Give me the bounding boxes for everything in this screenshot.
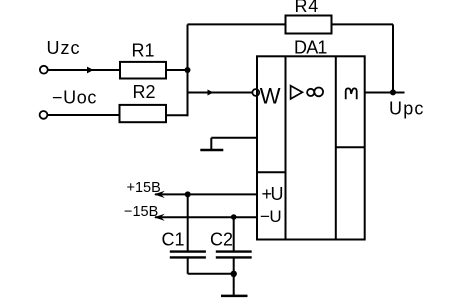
svg-text:−15В: −15В <box>124 204 158 220</box>
wire R1 out <box>166 69 188 71</box>
svg-text:R1: R1 <box>132 41 155 61</box>
resistor R4 <box>286 16 332 34</box>
junction dot bottom common <box>231 271 237 277</box>
op-amp right column horizontal divider <box>336 146 365 148</box>
op-amp infinity symbol <box>307 89 314 96</box>
arrow on input1 wire <box>87 67 94 74</box>
capacitor C2 lead bottom <box>233 259 235 274</box>
ground bar lower <box>221 295 248 298</box>
wire feedback vertical down <box>392 24 394 92</box>
wire input1 to R1 <box>48 69 120 71</box>
ground stem lower <box>233 274 235 295</box>
capacitor C2 plate bottom <box>216 256 252 258</box>
op-amp divider left column <box>285 56 287 239</box>
wire ground to op-amp common <box>211 137 257 139</box>
junction dot -15V / C2 <box>231 214 237 220</box>
wire -15V rail <box>155 216 257 218</box>
svg-text:R2: R2 <box>133 82 156 102</box>
ground stem upper <box>210 138 212 149</box>
capacitor C1 lead bottom <box>187 259 189 274</box>
terminal input 2 <box>40 111 48 119</box>
capacitor C2 lead top <box>233 217 235 251</box>
svg-text:+U: +U <box>262 184 283 204</box>
wire capacitors common bottom <box>188 273 234 275</box>
wire R2 out <box>166 114 188 116</box>
pin circle W input <box>252 89 259 96</box>
op-amp left column horizontal divider <box>257 171 286 173</box>
capacitor C1 plate bottom <box>170 256 206 258</box>
wire op-amp output <box>365 92 405 94</box>
svg-text:−Uoc: −Uoc <box>52 87 97 107</box>
op-amp DA1 outer box <box>257 56 365 239</box>
svg-text:Upc: Upc <box>389 99 425 119</box>
wire input2 to R2 <box>48 114 120 116</box>
svg-text:C2: C2 <box>210 229 233 249</box>
svg-text:C1: C1 <box>162 229 185 249</box>
terminal input 1 <box>40 66 48 74</box>
wire into W input <box>188 92 253 94</box>
junction dot output <box>390 89 396 95</box>
svg-text:Uzc: Uzc <box>47 38 81 58</box>
pin label M <box>346 88 357 99</box>
arrow -15V <box>154 214 165 221</box>
op-amp triangle symbol <box>291 86 303 99</box>
arrow on W wire <box>208 90 214 96</box>
arrow +15V <box>154 191 165 198</box>
junction dot R1 output <box>185 67 191 73</box>
op-amp divider right column <box>335 56 337 239</box>
svg-text:DA1: DA1 <box>294 37 327 57</box>
svg-text:W: W <box>260 83 281 108</box>
capacitor C2 plate top <box>216 250 252 252</box>
capacitor C1 lead top <box>187 194 189 250</box>
capacitor C1 plate top <box>170 250 206 252</box>
resistor R1 <box>120 62 166 79</box>
wire feedback top <box>188 23 286 25</box>
svg-text:−U: −U <box>260 207 281 226</box>
ground bar upper <box>200 149 223 152</box>
wire +15V rail <box>155 193 257 195</box>
svg-text:R4: R4 <box>295 0 320 16</box>
wire summing vertical <box>187 24 189 116</box>
junction dot +15V / C1 <box>185 191 191 197</box>
wire R4 to output node <box>332 23 394 25</box>
resistor R2 <box>120 105 167 122</box>
